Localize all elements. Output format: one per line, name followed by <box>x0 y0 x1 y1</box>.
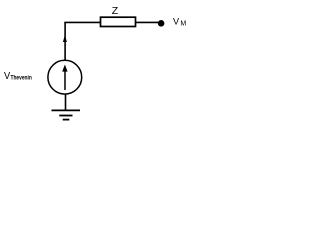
label VThevenin <box>4 70 32 82</box>
wire arrowhead (current direction, pointing up) <box>63 35 67 42</box>
wire: vertical from top corner down to source top <box>64 22 66 60</box>
wire: horizontal from corner to impedance Z left terminal <box>64 21 100 23</box>
wire: from impedance Z right terminal to node VM <box>136 21 159 23</box>
source VThevenin (circle with upward arrow) <box>48 60 82 94</box>
svg-text:V: V <box>173 16 180 26</box>
svg-text:V: V <box>4 70 10 82</box>
impedance Z (rectangular box) <box>101 17 136 26</box>
svg-text:M: M <box>180 21 186 28</box>
label VM <box>173 16 186 27</box>
label Z value <box>112 5 119 17</box>
svg-text:Z: Z <box>112 5 119 17</box>
ground <box>52 110 81 119</box>
node VM (junction dot) <box>158 20 165 27</box>
svg-text:Thevenin: Thevenin <box>11 75 32 82</box>
wire: source bottom to ground <box>65 94 67 110</box>
